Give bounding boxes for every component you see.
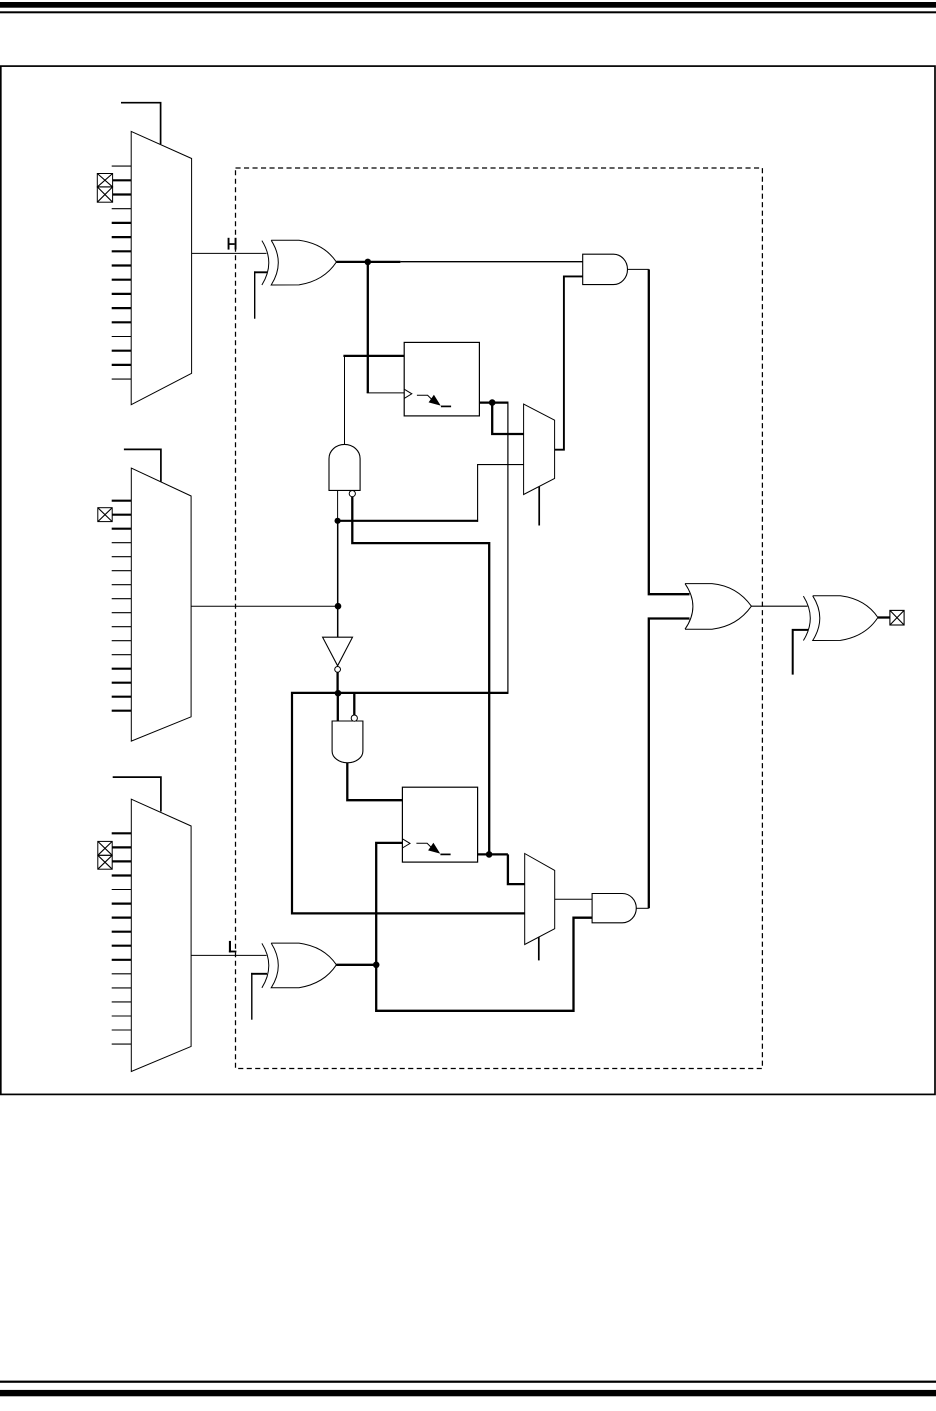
wire FF1 Q down to inverter net rail [507, 403, 509, 693]
mux MUX1 (top) body [131, 131, 191, 404]
wire U2 output to FF2 D input [347, 763, 402, 800]
wire XOR2 output (bold) [336, 964, 376, 966]
inverter INV1 [323, 637, 353, 666]
mux MUX2 select wire [124, 449, 161, 481]
wire AND1 output down right rail [649, 269, 690, 594]
wire OR1 output to XOR3 [751, 605, 807, 607]
bubble U2 inverted input [351, 715, 357, 721]
mux MUXA body [524, 404, 555, 494]
wire J1 down to FF1 clock [367, 262, 369, 393]
wire N3 to N2 vertical [337, 521, 339, 606]
wire MUXB output to AND2 input 1 [555, 898, 592, 900]
wire XOR2 lower input hook [251, 973, 253, 1020]
wire MUX1 output to XOR1 [192, 252, 267, 254]
mux MUX3 select wire [113, 777, 161, 811]
label H [228, 238, 237, 250]
label L [229, 941, 237, 953]
footer thin rule [0, 1381, 936, 1383]
flip-flop FF2 falling-edge symbol [416, 843, 450, 855]
wire XOR3 output to pin [878, 616, 890, 618]
mux MUX2 (middle) body [131, 468, 191, 741]
wire N4 rail left and down to MUXB input 2 [292, 693, 525, 914]
pin symbol (crossed box) at MUX2 input [98, 508, 112, 522]
mux MUXA select stub [538, 487, 540, 526]
pin symbol (crossed box) at MUX1 input a [97, 174, 112, 187]
node J4 junction dot at XOR2 output [373, 962, 380, 969]
node N2 junction dot [335, 603, 342, 610]
wire MUXA output to AND1 input 2 [555, 276, 583, 449]
wire AND1 output to OR input 1 [628, 268, 649, 270]
mux MUXB body [525, 854, 555, 945]
wire AND2 output up to OR input 2 [649, 619, 690, 909]
mux MUXB select stub [538, 937, 540, 961]
mux MUX3 (bottom) body [131, 799, 191, 1071]
and-gate-up U1 (AND with inverted input) body [329, 444, 360, 490]
wire XOR3 lower input hook [793, 630, 809, 675]
wire FF2 Q to MUXB input 1 [508, 854, 525, 884]
wire XOR1 lower input hook [254, 271, 256, 318]
wire MUX3 output to XOR2 [191, 954, 266, 956]
wire J4 down and right to AND2 input 2 [376, 918, 592, 1011]
node N4 junction dot [335, 690, 342, 697]
wire N2 to inverter input [337, 606, 339, 637]
and-gate AND2 [592, 894, 636, 923]
mux MUX3 input ticks [112, 833, 132, 1044]
wire U1 left input from node N3 [337, 490, 339, 520]
wire XOR1 output to AND1 input 1 [400, 261, 583, 263]
wire AND2 output to right rail [636, 907, 649, 909]
pin symbol (crossed box) at MUX3 input b [98, 855, 112, 869]
bubble INV1 output [335, 667, 341, 673]
node N3 junction dot [335, 518, 341, 524]
wire MUX2 output to node N2 [191, 605, 338, 607]
wire AND-U output to FF1 D input [344, 356, 346, 445]
nand-gate-down U2 (AND with inverted input) body [332, 721, 363, 763]
dashed module boundary box [236, 168, 763, 1069]
wire XOR1 output (bold) [336, 261, 400, 263]
wire FF1 Q to MUXA input 1 [492, 403, 523, 434]
wire INV1 output to node N4 [336, 672, 338, 693]
figure frame [1, 66, 935, 1094]
header thick rule [0, 2, 936, 8]
flip-flop FF1 falling-edge symbol [417, 395, 451, 407]
pin symbol (crossed box) at MUX3 input a [98, 841, 112, 855]
flip-flop FF2 clock triangle [402, 839, 410, 848]
footer thick rule [0, 1390, 936, 1396]
header thin rule [0, 11, 936, 13]
wire XOR2 junction up to FF2 clock [376, 843, 402, 965]
mux MUX1 input ticks [112, 166, 132, 379]
and-gate AND1 [583, 254, 628, 284]
wire U1 inverted input to FF2 Q feedback [352, 497, 489, 855]
pin symbol (crossed box) output pin [890, 610, 904, 625]
node J1 junction dot [365, 259, 372, 266]
wire FF1 Q output [479, 401, 508, 403]
mux MUX2 input ticks [112, 501, 132, 711]
xor-gate XOR1 [262, 240, 337, 285]
node J3 junction dot at FF2 Q [486, 851, 493, 858]
pin symbol (crossed box) at MUX1 input b [97, 187, 112, 202]
wire net from node N3 to MUXA input 2 [338, 520, 479, 522]
xor-gate XOR2 [262, 943, 337, 988]
node J2 junction dot at FF1 Q [489, 399, 496, 406]
or-gate OR1 [685, 584, 751, 630]
flip-flop FF1 box [404, 342, 479, 416]
wire FF2 Q output [478, 853, 508, 855]
flip-flop FF1 clock triangle [404, 389, 412, 398]
mux MUX1 select wire [121, 103, 161, 145]
flip-flop FF2 box [402, 787, 477, 862]
wire N4 to NAND2 left input [337, 693, 339, 721]
wire N4 rail branch down to NAND2 inverted input [353, 693, 355, 715]
bubble U1 inverted input [349, 491, 355, 497]
xor-gate XOR3 [803, 596, 878, 641]
